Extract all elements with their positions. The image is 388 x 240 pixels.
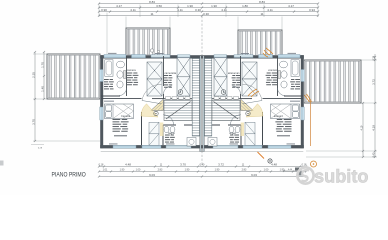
balcony left: [47, 54, 100, 99]
windows: [104, 55, 126, 58]
wc: [281, 71, 287, 78]
staircase main body: [212, 100, 240, 121]
svg-text:1.80: 1.80: [242, 4, 248, 8]
svg-text:3.72: 3.72: [218, 163, 224, 167]
svg-text:PIANO PRIMO: PIANO PRIMO: [52, 171, 86, 178]
wash basin: [117, 61, 125, 68]
svg-text:1.00: 1.00: [136, 169, 141, 172]
svg-text:4.48: 4.48: [271, 163, 277, 167]
svg-text:1.90: 1.90: [185, 169, 190, 172]
understair hatched triangle: [151, 99, 164, 110]
bathroom1 text: [291, 79, 300, 80]
svg-text:9.03: 9.03: [251, 173, 257, 177]
svg-text:3.72: 3.72: [371, 79, 375, 85]
lower bedroom text: [104, 100, 114, 103]
bathroom1 text: [104, 79, 113, 80]
svg-text:1.90: 1.90: [211, 4, 217, 8]
centre axis dashed line: [201, 16, 203, 56]
party wall: [203, 56, 205, 152]
right dimension lines: [306, 54, 377, 158]
svg-text:2.35: 2.35: [31, 72, 35, 78]
svg-text:4.11: 4.11: [221, 8, 227, 12]
lower bedroom text: [290, 100, 300, 103]
svg-text:bagno: bagno: [228, 132, 236, 135]
svg-text:8.83: 8.83: [149, 0, 155, 4]
svg-text:0.94: 0.94: [309, 8, 315, 12]
svg-text:4.11: 4.11: [130, 8, 136, 12]
svg-text:4.48: 4.48: [125, 163, 131, 167]
svg-text:11: 11: [150, 12, 153, 16]
svg-text:subito: subito: [314, 167, 369, 187]
svg-text:1.40: 1.40: [40, 86, 44, 92]
windows: [278, 55, 300, 58]
interior walls: [126, 56, 128, 96]
balcony top-right: [238, 30, 282, 58]
svg-text:Camera: Camera: [121, 114, 131, 118]
unit outer walls (solid bands): [202, 55, 304, 58]
svg-text:4.17: 4.17: [116, 4, 122, 8]
balcony top-left: [126, 28, 170, 56]
interior walls: [277, 56, 279, 96]
svg-text:0.30: 0.30: [195, 8, 201, 12]
yellow corridor strip: [160, 123, 163, 137]
svg-text:9.03: 9.03: [149, 173, 155, 177]
balcony right: [304, 60, 361, 103]
svg-text:0.40: 0.40: [200, 164, 205, 167]
threshold boxes on hall wall: [214, 97, 239, 100]
wc: [117, 71, 123, 78]
door swing arcs: [243, 84, 263, 100]
svg-text:1.90: 1.90: [215, 169, 220, 172]
bathtub: [291, 60, 299, 77]
svg-text:4.19: 4.19: [371, 125, 375, 131]
wardrobe cameretta (tall, X-cells): [214, 58, 227, 96]
svg-text:0.18: 0.18: [99, 164, 104, 167]
svg-text:3.50: 3.50: [156, 4, 162, 8]
svg-text:4.17: 4.17: [288, 4, 294, 8]
bidet: [117, 81, 123, 88]
svg-text:2.83: 2.83: [158, 169, 163, 172]
bottom dimension lines: [98, 163, 307, 178]
small detail marks bottom-right: [283, 170, 301, 172]
svg-text:3.70: 3.70: [31, 119, 35, 125]
svg-text:4.19: 4.19: [360, 125, 363, 130]
left dimension lines: [31, 51, 100, 150]
left edge speck: [0, 161, 4, 166]
bagno2 fixtures: [164, 126, 169, 132]
svg-text:2.83: 2.83: [242, 169, 247, 172]
wardrobe stack: [245, 122, 255, 145]
svg-text:4.11: 4.11: [267, 8, 273, 12]
svg-text:1.01: 1.01: [103, 169, 108, 172]
svg-text:3.70: 3.70: [180, 163, 186, 167]
svg-text:0.90: 0.90: [101, 8, 107, 12]
staircase main body: [164, 100, 192, 121]
staircase run along party wall: [205, 59, 212, 137]
bidet: [281, 81, 287, 88]
staircase run along party wall: [192, 59, 199, 137]
svg-text:cameretta: cameretta: [227, 71, 239, 75]
understair hatched triangle: [241, 99, 254, 110]
bathtub: [105, 60, 113, 77]
svg-text:0.28: 0.28: [372, 55, 375, 60]
plant pots on top-left balcony: [150, 49, 153, 52]
svg-text:camera: camera: [127, 68, 136, 72]
bagno2 fixtures: [235, 126, 240, 132]
svg-text:11: 11: [260, 12, 263, 16]
svg-text:camera: camera: [268, 68, 277, 72]
svg-text:1.90: 1.90: [187, 4, 193, 8]
yellow door highlight: [246, 104, 263, 117]
wardrobe camera1 (tall, X-cells): [242, 62, 257, 96]
building body: [100, 55, 304, 152]
svg-text:Camera: Camera: [273, 114, 283, 118]
svg-text:1.70: 1.70: [40, 62, 44, 68]
wardrobe stack: [149, 122, 159, 145]
wash basin: [280, 61, 288, 68]
subito watermark: [297, 167, 368, 187]
svg-text:0.30: 0.30: [203, 12, 209, 16]
svg-text:bagno: bagno: [168, 132, 176, 135]
svg-text:0.40: 0.40: [372, 152, 375, 157]
svg-text:8.83: 8.83: [259, 0, 265, 4]
yellow corridor strip: [241, 123, 244, 137]
orange annotation marks: [263, 48, 312, 102]
bed lower bedroom: [271, 104, 300, 119]
door swing arcs: [142, 84, 162, 100]
svg-text:cameretta: cameretta: [165, 71, 177, 75]
wardrobe cameretta (tall, X-cells): [177, 58, 190, 96]
svg-text:1.90: 1.90: [120, 169, 125, 172]
party wall: [200, 56, 202, 152]
bed lower bedroom: [105, 104, 134, 119]
top dimension lines: [98, 0, 319, 54]
yellow door highlight: [141, 104, 158, 117]
svg-text:1.00: 1.00: [264, 169, 269, 172]
unit outer walls (solid bands): [100, 55, 202, 58]
threshold boxes on hall wall: [166, 97, 191, 100]
wardrobe camera1 (tall, X-cells): [147, 62, 162, 96]
